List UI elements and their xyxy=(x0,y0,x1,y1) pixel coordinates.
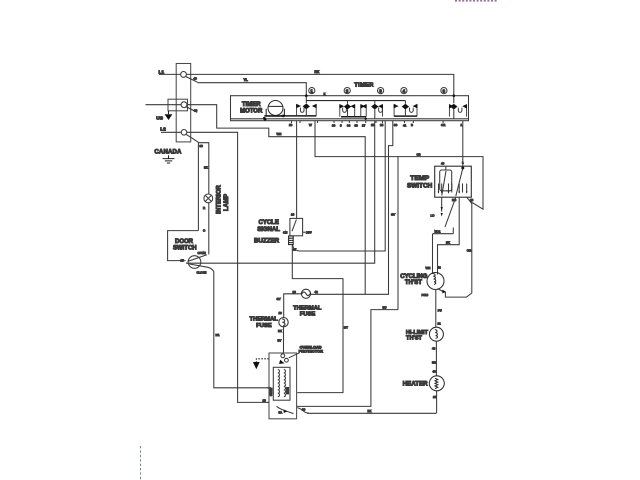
svg-text:WH: WH xyxy=(277,132,282,136)
wire CB branch xyxy=(315,121,483,210)
temp switch OR output xyxy=(445,197,471,297)
svg-text:NO1: NO1 xyxy=(435,230,441,234)
buzzer speaker xyxy=(289,236,294,245)
cycling contact blade xyxy=(438,289,445,293)
svg-text:39: 39 xyxy=(194,109,198,113)
svg-text:1: 1 xyxy=(462,161,464,165)
svg-text:SIGNAL: SIGNAL xyxy=(257,227,280,233)
ground CANADA xyxy=(163,155,175,163)
motor bus xyxy=(264,115,316,117)
timer cam 2 number xyxy=(344,88,350,94)
wire heater return down xyxy=(436,391,438,414)
svg-text:B: B xyxy=(411,123,413,127)
svg-text:YL: YL xyxy=(244,78,248,82)
buzzer blade xyxy=(292,220,296,232)
wire temp to cycling right xyxy=(438,197,460,274)
svg-text:TEMP: TEMP xyxy=(410,175,429,182)
svg-text:TH'ST: TH'ST xyxy=(406,336,423,342)
svg-text:TIMER: TIMER xyxy=(242,102,261,108)
svg-text:O: O xyxy=(203,229,206,233)
stray dashed mark bottom left xyxy=(140,446,142,480)
switch blade N xyxy=(186,107,197,113)
junction dot bus xyxy=(365,118,367,120)
svg-text:THERMAL: THERMAL xyxy=(250,316,279,322)
ground US xyxy=(168,111,170,114)
svg-text:BK: BK xyxy=(368,409,372,413)
svg-text:1: 1 xyxy=(461,123,463,127)
junction dot motor left xyxy=(263,117,266,120)
svg-text:SWITCH: SWITCH xyxy=(173,246,197,252)
svg-text:START: START xyxy=(269,387,273,396)
svg-text:FUSE: FUSE xyxy=(300,312,316,318)
timer box xyxy=(231,96,469,121)
motor box xyxy=(269,353,297,419)
wire L1 supply xyxy=(159,73,180,75)
svg-text:CB: CB xyxy=(417,152,421,156)
wire M1 door to motor xyxy=(214,272,269,388)
svg-text:OFF: OFF xyxy=(306,231,312,235)
svg-text:W: W xyxy=(309,123,312,127)
wire temp to cycling left xyxy=(433,234,454,274)
svg-text:43: 43 xyxy=(438,266,442,270)
neutral connector box xyxy=(168,99,188,111)
wire lamp to door switch xyxy=(208,203,210,255)
svg-text:1: 1 xyxy=(310,88,313,93)
svg-text:TH'ST: TH'ST xyxy=(405,280,422,286)
heater return wire xyxy=(307,412,436,414)
wire BU to motor xyxy=(297,310,398,407)
svg-text:15: 15 xyxy=(181,258,185,262)
heater xyxy=(429,376,444,391)
temp switch box xyxy=(435,166,472,197)
svg-text:17: 17 xyxy=(293,248,297,252)
svg-text:28: 28 xyxy=(263,399,267,403)
hi-limit thermostat xyxy=(429,327,443,341)
wire motor to heater return xyxy=(297,408,309,414)
terminal N xyxy=(181,102,187,108)
svg-text:DT: DT xyxy=(344,326,348,330)
svg-text:48: 48 xyxy=(433,370,437,374)
svg-text:SWITCH: SWITCH xyxy=(407,183,433,190)
wire lamp feed xyxy=(199,143,209,194)
svg-text:OR: OR xyxy=(441,123,445,127)
timer switch 2 xyxy=(339,104,344,117)
svg-text:16: 16 xyxy=(433,395,437,399)
svg-text:M1: M1 xyxy=(216,333,220,337)
buzzer box xyxy=(290,218,303,235)
svg-text:PU: PU xyxy=(438,308,442,312)
svg-text:THERMAL: THERMAL xyxy=(293,305,322,311)
svg-text:MOTOR: MOTOR xyxy=(240,109,263,115)
svg-text:LO: LO xyxy=(431,214,436,218)
svg-text:46: 46 xyxy=(432,346,436,350)
wire fuse A to fuse B xyxy=(284,294,302,318)
temp switch blade 1 xyxy=(442,171,446,196)
overload protector xyxy=(281,354,285,358)
timer cam 1 number xyxy=(309,88,315,94)
wire buzzer out to timer xyxy=(293,121,386,251)
svg-text:6: 6 xyxy=(443,88,446,93)
timer switch 5 xyxy=(296,104,301,117)
svg-text:3: 3 xyxy=(379,88,382,93)
svg-text:K: K xyxy=(324,92,326,96)
svg-text:BY: BY xyxy=(278,339,282,343)
thermal fuse B xyxy=(279,318,288,327)
switch blade L2 xyxy=(186,134,199,143)
temp switch V blade xyxy=(445,197,456,234)
timer internal bus BK xyxy=(306,100,405,102)
svg-text:DOOR: DOOR xyxy=(175,239,194,245)
terminal block xyxy=(176,64,191,142)
svg-text:R: R xyxy=(203,206,205,210)
svg-text:CANADA: CANADA xyxy=(154,149,182,155)
svg-text:BU: BU xyxy=(383,305,387,309)
svg-text:BUZZER: BUZZER xyxy=(254,238,280,245)
timer motor xyxy=(268,101,283,116)
svg-text:36: 36 xyxy=(332,124,336,128)
svg-text:GY: GY xyxy=(391,213,395,217)
ground motor xyxy=(256,359,269,362)
timer switch 3 xyxy=(374,101,376,104)
timer cam 4 number xyxy=(401,88,407,94)
bus under switch 4 xyxy=(394,115,417,117)
svg-text:INTERIOR: INTERIOR xyxy=(217,185,223,214)
wire GY down branch xyxy=(397,157,399,310)
svg-text:30: 30 xyxy=(394,123,398,127)
wire L1 to timer switch 6 xyxy=(186,74,453,103)
svg-text:BK: BK xyxy=(446,241,450,245)
svg-text:BR: BR xyxy=(432,360,436,364)
junction dot timer bottom xyxy=(264,118,267,121)
temp switch top pin stub xyxy=(445,166,447,170)
wire fuse B to motor xyxy=(283,327,285,353)
motor windings xyxy=(273,367,290,400)
svg-text:TIMER: TIMER xyxy=(354,82,374,88)
svg-text:41: 41 xyxy=(403,124,407,128)
svg-text:LAMP: LAMP xyxy=(224,194,230,211)
timer pin stubs xyxy=(292,121,444,123)
stray dashed mark top xyxy=(455,0,498,2)
wire fuse to timer xyxy=(311,121,393,295)
bus under switch 2 xyxy=(341,116,366,118)
wire temp switch feed xyxy=(462,121,464,169)
svg-text:GY: GY xyxy=(277,297,281,301)
timer cam 6 number xyxy=(441,88,447,94)
svg-text:16: 16 xyxy=(291,213,295,217)
junction dot temp feed xyxy=(461,167,464,170)
terminal L2 xyxy=(181,130,187,136)
svg-text:PROTECTOR: PROTECTOR xyxy=(299,349,324,354)
svg-text:ON: ON xyxy=(283,230,287,234)
wire L2 supply xyxy=(161,131,181,133)
svg-text:40: 40 xyxy=(441,162,445,166)
svg-text:38: 38 xyxy=(200,144,204,148)
svg-text:HEATER: HEATER xyxy=(403,380,429,387)
svg-text:BK: BK xyxy=(204,166,208,170)
wire buzzer feed xyxy=(296,121,298,219)
svg-text:US: US xyxy=(156,115,163,121)
switch blade L1 xyxy=(186,77,198,83)
temp switch blade 2 xyxy=(456,168,463,196)
svg-text:17: 17 xyxy=(362,124,366,128)
svg-text:BK: BK xyxy=(278,329,282,333)
svg-text:5A: 5A xyxy=(279,410,283,414)
wire neutral WH run xyxy=(187,105,365,295)
motor centrifugal switch xyxy=(277,406,294,413)
cycling thermostat xyxy=(427,273,444,290)
svg-text:OPEN: OPEN xyxy=(198,251,206,255)
svg-text:FUSE: FUSE xyxy=(256,323,272,329)
timer switch 2 second contact pair xyxy=(360,104,365,117)
svg-text:30: 30 xyxy=(355,124,359,128)
svg-text:16: 16 xyxy=(279,311,283,315)
timer switch 6 xyxy=(449,104,454,117)
svg-text:MAIN: MAIN xyxy=(285,387,289,394)
svg-text:26: 26 xyxy=(293,290,297,294)
svg-text:40: 40 xyxy=(194,77,198,81)
door switch enclosure xyxy=(168,231,199,261)
temp switch inner frame xyxy=(440,170,452,191)
wire buzzer aux to motor xyxy=(292,245,343,393)
wire door enclosure feed xyxy=(197,143,199,231)
svg-text:28: 28 xyxy=(380,123,384,127)
svg-text:34: 34 xyxy=(347,124,351,128)
timer inner bottom bus xyxy=(231,118,469,120)
svg-text:16: 16 xyxy=(289,123,293,127)
wire cycling output xyxy=(435,290,437,328)
terminal L1 xyxy=(181,72,187,78)
timer switch 4 xyxy=(394,104,399,117)
junction dot L1 entry xyxy=(453,94,456,97)
wire door circuit xyxy=(186,121,375,264)
wire YL xyxy=(197,83,306,104)
svg-text:2: 2 xyxy=(346,88,349,93)
svg-text:15: 15 xyxy=(371,123,375,127)
svg-text:CYCLING: CYCLING xyxy=(400,274,427,280)
door switch xyxy=(188,256,201,269)
wire L2 to motor xyxy=(187,132,269,402)
wire neutral supply xyxy=(146,104,182,106)
svg-text:4: 4 xyxy=(403,88,406,93)
timer diamond drop stubs xyxy=(306,109,454,119)
svg-text:CYCLE: CYCLE xyxy=(259,220,279,226)
svg-text:21: 21 xyxy=(438,322,442,326)
motor pin stubs xyxy=(267,388,269,403)
svg-text:PJ18: PJ18 xyxy=(422,293,429,297)
svg-text:WH: WH xyxy=(426,266,431,270)
svg-text:OR: OR xyxy=(467,248,471,252)
svg-text:42: 42 xyxy=(315,290,319,294)
timer cam 3 number xyxy=(378,88,384,94)
temp switch LO selector xyxy=(441,197,443,211)
svg-text:BK: BK xyxy=(315,70,320,74)
svg-text:L2: L2 xyxy=(160,126,166,132)
wire hi-limit to heater xyxy=(435,341,437,376)
svg-text:CLOSE: CLOSE xyxy=(197,271,207,275)
junction dot YL entry xyxy=(305,94,308,97)
junction dot motor right xyxy=(282,115,285,118)
thermal fuse A xyxy=(301,289,310,298)
svg-text:8: 8 xyxy=(340,124,342,128)
interior lamp xyxy=(204,194,213,203)
temp switch contacts xyxy=(439,184,467,193)
